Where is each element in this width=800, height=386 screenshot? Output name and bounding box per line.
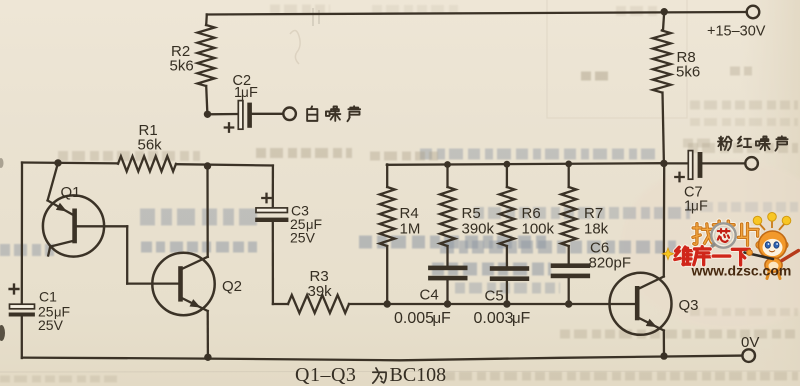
svg-text:F: F <box>699 199 708 215</box>
svg-text:25V: 25V <box>290 230 316 246</box>
svg-text:18k: 18k <box>584 221 609 238</box>
node C2 junction <box>204 111 211 118</box>
resistor R6 100k <box>506 164 508 187</box>
transistor Q3 <box>610 273 672 335</box>
svg-text:C5: C5 <box>485 288 504 305</box>
svg-text:F: F <box>521 310 531 327</box>
svg-text:μ: μ <box>512 310 521 327</box>
resistor R3 39k <box>273 303 288 305</box>
svg-text:0.005: 0.005 <box>394 310 434 327</box>
label 粉红噪声 (pink noise) <box>718 137 732 151</box>
node Q3 emitter ground junction <box>660 352 667 359</box>
mascot figure <box>745 213 799 279</box>
faint bleed-through page marks <box>547 0 687 118</box>
svg-text:μ: μ <box>241 85 249 100</box>
svg-text:0V: 0V <box>741 334 759 351</box>
node Q2 emitter ground junction <box>204 354 211 361</box>
wire R1 horizontal line <box>22 161 118 164</box>
svg-text:5k6: 5k6 <box>170 58 194 75</box>
resistor R5 390k <box>446 164 448 187</box>
svg-text:R4: R4 <box>400 205 419 222</box>
node main column junction <box>204 162 211 169</box>
wire left branch down to C1 <box>21 163 24 305</box>
svg-text:BC108: BC108 <box>390 364 447 386</box>
wire C2 to white-noise terminal <box>252 113 283 115</box>
wire top supply rail <box>207 12 747 15</box>
svg-text:www.dzsc.com: www.dzsc.com <box>691 262 792 278</box>
wire Q2 emitter down to ground rail <box>207 311 209 357</box>
wire C3 branch corner down <box>272 166 274 207</box>
watermark dzsc.com logo <box>662 213 798 279</box>
svg-text:F: F <box>249 85 258 101</box>
svg-text:56k: 56k <box>138 137 163 154</box>
svg-text:39k: 39k <box>308 283 333 300</box>
svg-text:Q3: Q3 <box>679 297 699 314</box>
transistor Q2 <box>152 253 214 315</box>
node R8 top junction <box>661 8 668 15</box>
svg-text:390k: 390k <box>462 221 495 238</box>
node ladder rail junctions <box>444 161 451 168</box>
svg-text:μ: μ <box>691 199 699 214</box>
node R4 bottom <box>384 300 391 307</box>
svg-text:25V: 25V <box>38 317 64 333</box>
resistor R1 56k <box>118 156 176 171</box>
terminal pink noise output <box>745 157 758 170</box>
svg-text:F: F <box>441 310 451 327</box>
terminal white noise output <box>283 108 296 121</box>
svg-text:+15–30V: +15–30V <box>707 24 766 40</box>
terminal 0V <box>742 349 755 362</box>
wire Q1 base to Q2 base <box>77 225 127 227</box>
capacitor C5 0.003uF <box>506 246 508 266</box>
svg-text:1M: 1M <box>400 221 421 238</box>
terminal +15-30V <box>747 6 760 19</box>
capacitor C1 25uF electrolytic <box>10 285 19 294</box>
wire Q3 collector to junction <box>663 163 666 276</box>
capacitor C3 25uF electrolytic <box>262 194 270 202</box>
capacitor C6 820pF <box>568 246 570 263</box>
svg-text:Q2: Q2 <box>222 278 242 295</box>
capacitor C7 1uF <box>664 162 688 164</box>
svg-text:C4: C4 <box>420 287 439 304</box>
svg-text:Q1–Q3: Q1–Q3 <box>295 364 356 386</box>
wire Q3 emitter to ground rail <box>663 331 666 357</box>
svg-text:100k: 100k <box>522 221 555 238</box>
svg-text:μ: μ <box>433 310 442 327</box>
wire bottom ground rail <box>22 356 742 361</box>
svg-text:R6: R6 <box>522 205 541 222</box>
capacitor C2 1uF <box>238 101 243 130</box>
svg-text:R5: R5 <box>462 205 481 222</box>
resistor R8 5k6 <box>663 12 664 31</box>
wire ladder top rail <box>387 163 664 165</box>
node Q1 emitter junction <box>54 159 61 166</box>
resistor R4 1M <box>386 164 388 187</box>
wire ladder bottom line <box>349 303 635 305</box>
label 白噪声 (white noise) <box>307 106 317 121</box>
wire Q2 collector up to junction <box>206 166 208 257</box>
svg-text:Q1: Q1 <box>61 184 81 201</box>
svg-text:5k6: 5k6 <box>676 64 700 81</box>
wire Q1 emitter lead <box>48 163 58 201</box>
wire R4 bottom lead <box>386 246 388 304</box>
node C7 junction <box>660 160 667 167</box>
svg-text:820pF: 820pF <box>589 255 632 272</box>
wire C7 to pink-noise terminal <box>703 162 745 164</box>
svg-text:R7: R7 <box>584 205 603 222</box>
svg-text:0.003: 0.003 <box>474 310 514 327</box>
svg-text:C1: C1 <box>39 289 57 305</box>
resistor R2 <box>205 15 208 26</box>
resistor R7 18k <box>568 164 570 187</box>
wire C2 left lead <box>208 113 237 116</box>
capacitor C4 0.005uF <box>446 246 448 266</box>
transistor Q1 <box>43 195 104 256</box>
